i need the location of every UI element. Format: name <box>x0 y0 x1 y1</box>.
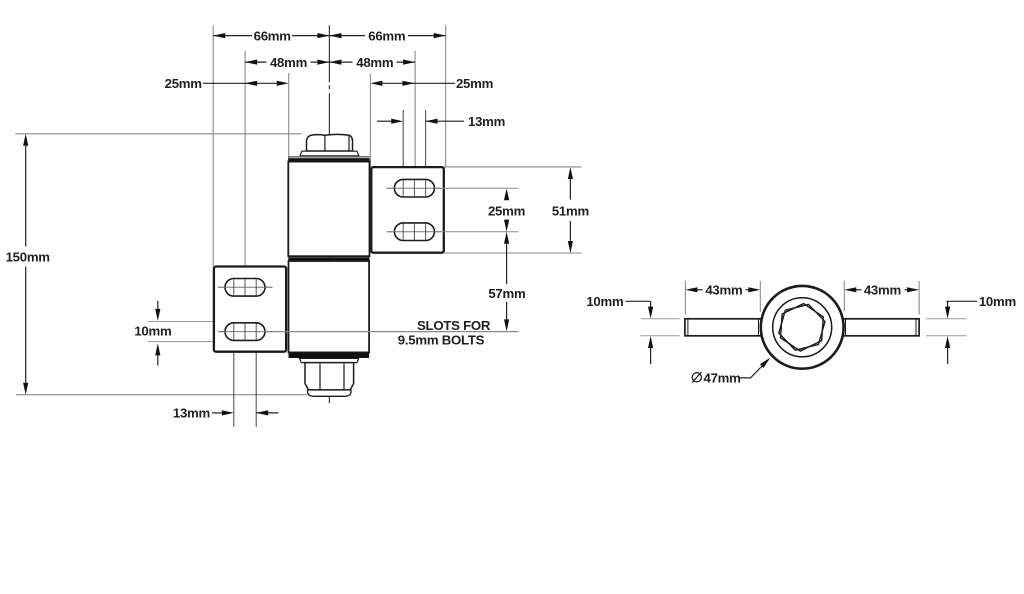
svg-text:66mm: 66mm <box>368 28 405 43</box>
extension line right plate top (y=167) <box>444 166 581 168</box>
svg-text:SLOTS FOR: SLOTS FOR <box>417 318 491 333</box>
dimension 13mm top <box>377 120 392 122</box>
hex nut top <box>307 134 353 151</box>
extension lines 43mm left <box>684 281 686 315</box>
hex nut bottom <box>305 363 354 390</box>
slot R2 centre line <box>387 231 519 233</box>
extension tick 13mm left edge (x=403.2) <box>402 110 404 179</box>
svg-text:25mm: 25mm <box>165 76 202 91</box>
dimension 66mm left <box>213 35 329 37</box>
dimension 43mm right <box>856 289 907 291</box>
extension line slot centre right (x=415) <box>414 51 416 180</box>
slot R1 <box>388 179 442 197</box>
right arm chamfer lines <box>845 319 847 335</box>
svg-text:10mm: 10mm <box>586 294 623 309</box>
centreline of pintle <box>328 25 330 403</box>
cylinder upper section <box>288 162 369 257</box>
dimension 25mm left <box>203 82 277 84</box>
dimension 25mm right <box>382 82 455 84</box>
right plate (upper leaf) <box>371 167 444 253</box>
svg-text:25mm: 25mm <box>456 76 493 91</box>
left arm <box>685 319 762 336</box>
svg-text:25mm: 25mm <box>488 203 525 218</box>
extension line 10mm bottom (y=341.6) <box>148 341 228 343</box>
extension line top (150mm upper datum) <box>15 133 302 135</box>
extension tick 13mm bottom left (x=233.8) <box>233 342 235 428</box>
cylinder lower section <box>289 261 370 352</box>
dimension 10mm (left view) <box>157 301 159 366</box>
svg-text:10mm: 10mm <box>979 294 1016 309</box>
left arm chamfer lines <box>687 319 689 335</box>
left plate (lower leaf) <box>214 267 286 352</box>
slot L2 <box>218 323 273 341</box>
slot L1 centre line <box>218 286 273 288</box>
slot L2 centre line / leader to note <box>218 331 518 333</box>
leader line for 47mm <box>739 365 764 378</box>
dimension 43mm left <box>697 289 748 291</box>
dimension 66mm right <box>329 35 445 37</box>
svg-text:43mm: 43mm <box>864 283 901 298</box>
extension line 66mm right (x=445.7) <box>445 25 447 167</box>
top black band <box>288 158 369 161</box>
extension line bottom (150mm lower datum) <box>16 394 307 396</box>
svg-text:43mm: 43mm <box>705 283 742 298</box>
label diameter 47mm <box>692 372 701 382</box>
extension tick 13mm right edge (x=425.6) <box>425 110 427 179</box>
svg-text:13mm: 13mm <box>468 114 505 129</box>
extension lines 43mm right <box>843 281 845 311</box>
dimension 57mm <box>506 244 508 320</box>
slot L1 <box>218 279 273 297</box>
svg-text:51mm: 51mm <box>552 203 589 218</box>
svg-text:47mm: 47mm <box>704 370 741 385</box>
bottom cap of bolt <box>308 390 352 396</box>
svg-text:150mm: 150mm <box>6 250 50 265</box>
svg-text:9.5mm BOLTS: 9.5mm BOLTS <box>398 333 485 348</box>
bottom black band <box>289 353 370 358</box>
extension line right plate bottom (y=253) <box>444 252 581 254</box>
hub inner circle <box>773 298 832 357</box>
svg-text:48mm: 48mm <box>356 55 393 70</box>
extension line 48mm left / slot centre (x=245) <box>244 51 246 278</box>
dimension 13mm bottom <box>212 412 222 414</box>
svg-text:66mm: 66mm <box>254 28 291 43</box>
extension tick 13mm bottom right (x=256.2) <box>255 342 257 428</box>
dimension 48mm left <box>245 61 329 63</box>
dimension 25mm (right side vertical) <box>504 188 509 200</box>
dimension 48mm right <box>329 61 415 63</box>
dimension 51mm <box>569 179 571 241</box>
hex socket (two rotated hexagons) <box>779 304 825 350</box>
extension line 10mm top (y=321.5) <box>148 321 228 323</box>
svg-text:10mm: 10mm <box>134 324 171 339</box>
svg-text:13mm: 13mm <box>173 406 210 421</box>
washer under top nut <box>300 151 359 156</box>
extension line 66mm left (x=213) <box>212 25 214 266</box>
right arm <box>842 319 919 336</box>
mid black band <box>288 257 369 261</box>
extension line 25mm left (x=288.7) <box>288 73 290 161</box>
extension line 25mm right (x=370.4) <box>369 74 371 167</box>
top grey seam line <box>288 156 369 158</box>
svg-text:57mm: 57mm <box>488 286 525 301</box>
slot R2 <box>388 223 442 241</box>
dimension 150mm <box>25 146 27 383</box>
svg-text:48mm: 48mm <box>270 55 307 70</box>
slot R1 centre line <box>387 187 519 189</box>
washer under bottom nut <box>300 358 359 362</box>
hub outer circle <box>761 286 844 369</box>
